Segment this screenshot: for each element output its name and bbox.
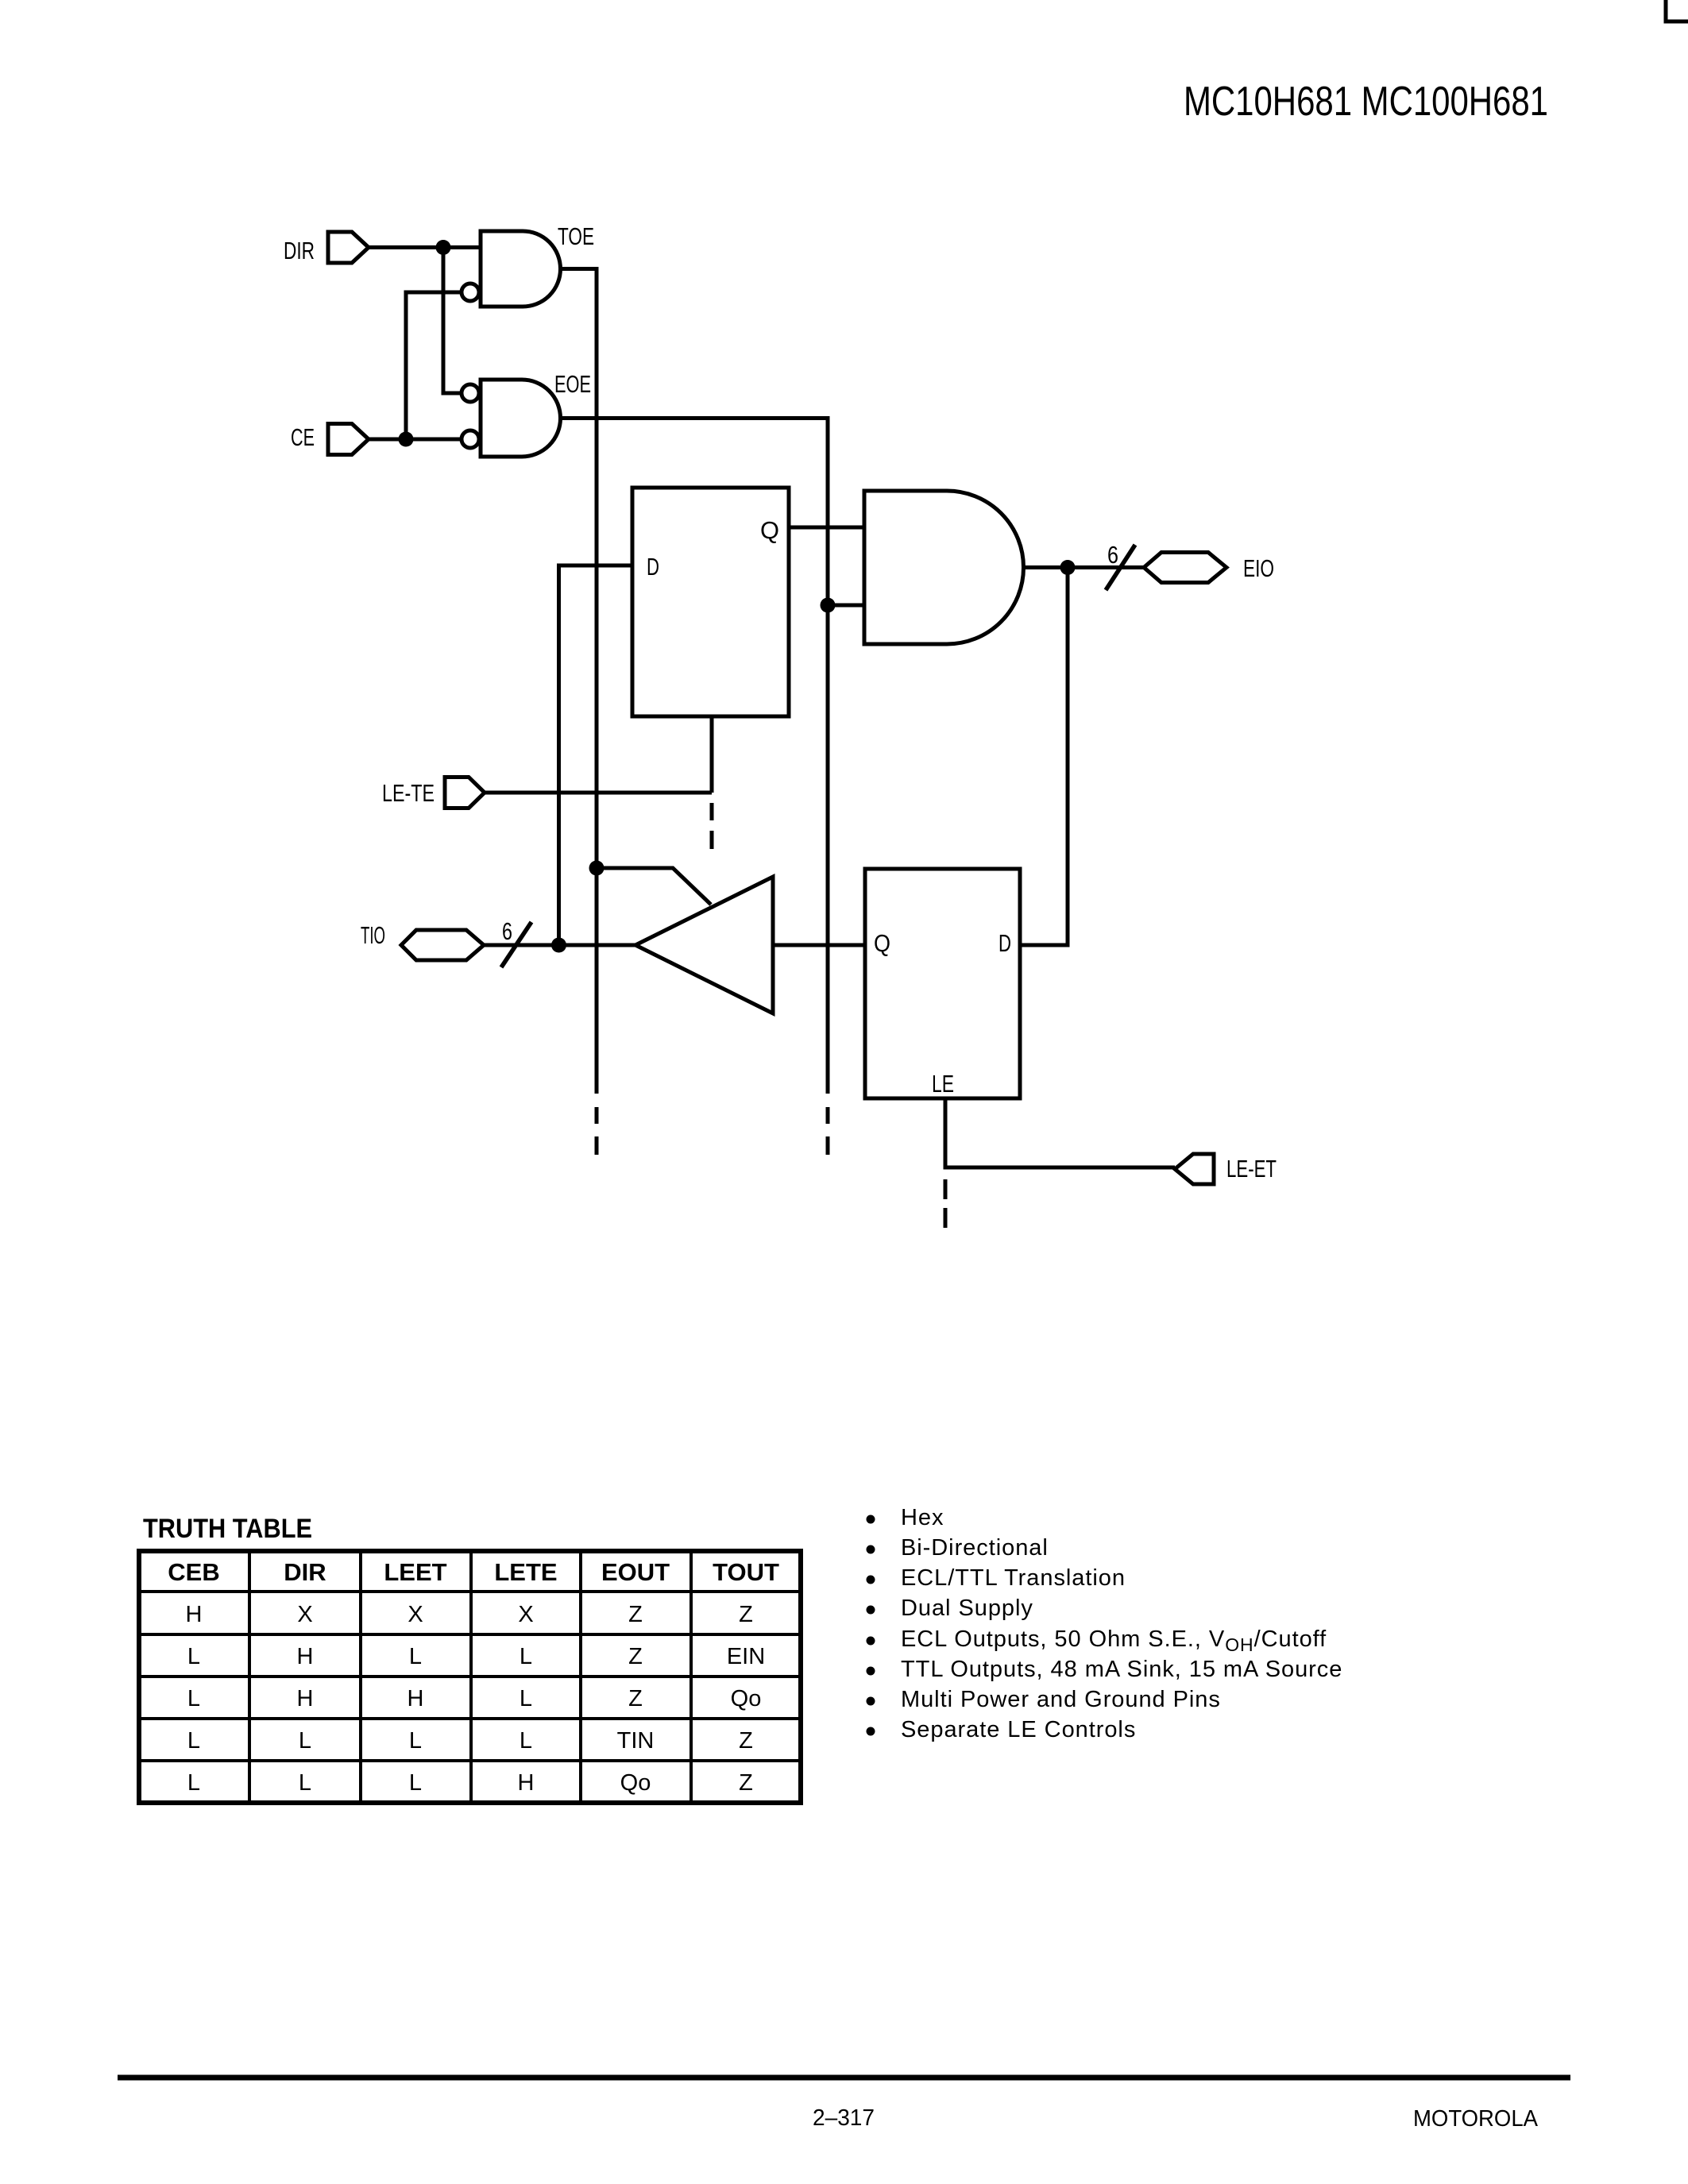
svg-text:Z: Z [628,1602,643,1627]
svg-text:L: L [409,1644,422,1669]
svg-text:Multi Power and Ground Pins: Multi Power and Ground Pins [901,1687,1221,1712]
svg-text:TIO: TIO [361,921,385,949]
svg-text:D: D [647,553,659,581]
svg-text:H: H [408,1686,424,1711]
svg-text:H: H [518,1770,535,1796]
svg-text:LE-ET: LE-ET [1226,1155,1277,1183]
svg-text:Qo: Qo [731,1686,762,1711]
svg-text:L: L [299,1770,311,1796]
svg-text:L: L [520,1686,532,1711]
svg-text:DIR: DIR [284,237,315,264]
svg-text:L: L [520,1644,532,1669]
svg-text:Z: Z [628,1686,643,1711]
svg-text:EIN: EIN [727,1644,765,1669]
svg-text:X: X [297,1602,312,1627]
svg-text:Q: Q [760,516,779,544]
svg-text:EIO: EIO [1243,554,1274,582]
svg-text:TRUTH TABLE: TRUTH TABLE [143,1514,312,1544]
svg-text:EOE: EOE [554,370,591,398]
svg-text:X: X [408,1602,423,1627]
svg-text:Separate LE Controls: Separate LE Controls [901,1717,1136,1742]
svg-text:Bi-Directional: Bi-Directional [901,1535,1049,1561]
svg-text:Qo: Qo [620,1770,651,1796]
svg-text:L: L [187,1770,200,1796]
svg-text:L: L [187,1644,200,1669]
svg-text:ECL Outputs, 50 Ohm S.E., VOH/: ECL Outputs, 50 Ohm S.E., VOH/Cutoff [901,1626,1327,1655]
svg-text:X: X [518,1602,533,1627]
svg-text:6: 6 [1107,541,1118,569]
svg-text:D: D [999,929,1011,957]
svg-text:LE: LE [932,1070,954,1098]
svg-text:CE: CE [291,423,315,451]
svg-text:MC10H681 MC100H681: MC10H681 MC100H681 [1184,79,1548,125]
svg-text:TOUT: TOUT [713,1558,779,1586]
svg-text:Z: Z [628,1644,643,1669]
svg-text:LEET: LEET [384,1558,446,1586]
svg-text:TIN: TIN [617,1728,655,1754]
svg-text:TOE: TOE [558,222,594,250]
svg-text:L: L [409,1770,422,1796]
svg-text:L: L [409,1728,422,1754]
svg-text:Z: Z [739,1770,753,1796]
svg-text:TTL Outputs, 48 mA Sink, 15 mA: TTL Outputs, 48 mA Sink, 15 mA Source [901,1657,1342,1682]
svg-text:H: H [297,1686,314,1711]
svg-text:L: L [187,1728,200,1754]
svg-text:L: L [520,1728,532,1754]
svg-text:H: H [297,1644,314,1669]
svg-text:CEB: CEB [168,1558,219,1586]
svg-text:LETE: LETE [494,1558,557,1586]
svg-text:Dual Supply: Dual Supply [901,1596,1033,1621]
svg-text:2–317: 2–317 [813,2105,875,2131]
svg-text:EOUT: EOUT [601,1558,670,1586]
svg-text:DIR: DIR [284,1558,326,1586]
svg-text:6: 6 [502,917,512,945]
svg-text:Z: Z [739,1602,753,1627]
svg-text:MOTOROLA: MOTOROLA [1413,2106,1539,2132]
svg-text:L: L [187,1686,200,1711]
svg-text:Q: Q [874,929,890,957]
svg-text:L: L [299,1728,311,1754]
svg-text:Hex: Hex [901,1505,944,1530]
svg-text:H: H [186,1602,203,1627]
svg-text:LE-TE: LE-TE [382,779,435,807]
svg-text:ECL/TTL Translation: ECL/TTL Translation [901,1565,1126,1591]
svg-text:Z: Z [739,1728,753,1754]
